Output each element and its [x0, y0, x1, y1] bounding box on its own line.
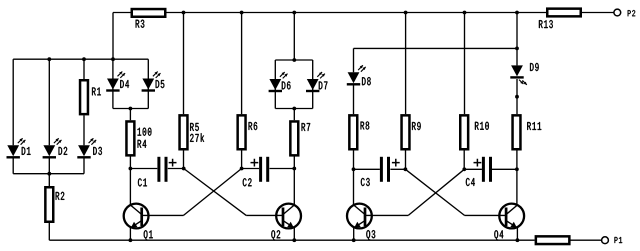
LED D9: [511, 65, 523, 76]
wire D2 cathode: [48, 159, 50, 174]
LED D2: [43, 145, 55, 156]
wire left section bottom rail: [13, 173, 84, 175]
capacitor C2: [259, 157, 262, 182]
label R6: [249, 122, 258, 130]
wire box to R4: [129, 109, 131, 121]
wire R9 bottom lead: [405, 151, 407, 170]
wire C1 right lead: [168, 168, 184, 170]
label Q2: [271, 230, 280, 240]
wire Q3 emitter: [353, 227, 355, 240]
node C2/Q2 collector junction: [292, 167, 296, 171]
wire R8 bottom lead: [353, 151, 355, 170]
wire D8 cathode to R8: [353, 86, 355, 115]
resistor R8: [349, 115, 357, 149]
resistor R13: [547, 9, 581, 17]
label D8: [362, 77, 371, 85]
label Q1: [144, 230, 153, 240]
resistor R5: [180, 115, 188, 149]
label C1: [138, 178, 147, 186]
wire Q1 emitter: [129, 227, 131, 240]
wire R7 bottom lead: [293, 156, 295, 168]
resistor R11: [513, 115, 521, 149]
wire R10 top lead: [464, 13, 466, 115]
wire C2 left lead: [242, 168, 259, 170]
resistor R9: [402, 115, 410, 149]
label C4: [466, 178, 475, 186]
node D6/D7 bottom junction: [292, 107, 296, 111]
wire Q4 collector: [516, 169, 518, 205]
wire D3 cathode: [83, 159, 85, 174]
wire C4 left lead: [464, 168, 482, 170]
wire Q3 collector: [353, 169, 355, 205]
wire C1 left lead: [130, 168, 157, 170]
wire bottom rail to P1: [570, 239, 601, 241]
node top rail at R9: [404, 11, 408, 15]
label D3: [93, 147, 102, 155]
label C3: [361, 178, 370, 186]
resistor R7: [290, 121, 298, 155]
node top rail at R6: [240, 11, 244, 15]
label D4: [120, 80, 129, 88]
wire D4/D5 box: [113, 59, 148, 108]
node junction left rail at R1: [82, 57, 86, 61]
node feed rail at D9 column: [515, 47, 519, 51]
wire R5 bottom lead: [183, 151, 185, 169]
label R5 value 27k: [190, 133, 204, 142]
LED D3: [78, 145, 90, 156]
node C4/Q4 collector junction: [515, 167, 519, 171]
node D9 cathode junction: [515, 95, 519, 99]
LED D7: [307, 79, 319, 90]
wire C3 right lead: [390, 168, 405, 170]
node Q1 collector junction: [129, 167, 133, 171]
LED D1: [7, 145, 19, 156]
resistor R2: [45, 187, 53, 222]
wire D8 anode: [353, 48, 355, 72]
polarity + of C1: [169, 159, 177, 167]
wire R5 top lead: [183, 13, 185, 115]
node junction D4/D5 bottom: [129, 107, 133, 111]
wire top-left drop to LED rail: [112, 13, 114, 60]
polarity + of C3: [392, 159, 400, 167]
wire D9 cathode: [516, 79, 518, 97]
label D7: [319, 82, 328, 90]
label R1: [92, 88, 101, 96]
node C2/R6 junction: [240, 167, 244, 171]
wire Q1 base to C2 node diagonal: [184, 169, 242, 216]
label Q4: [494, 230, 503, 240]
wire left section top rail: [13, 58, 113, 60]
wire Q2 emitter: [293, 227, 295, 240]
label D6: [282, 81, 291, 89]
node junction left rail at box: [111, 57, 115, 61]
wire D2 anode: [48, 59, 50, 145]
terminal P2: [614, 9, 621, 16]
label R8: [361, 121, 370, 129]
wire C4 right lead: [492, 168, 517, 170]
wire R6 top lead: [241, 13, 243, 115]
wire Q4 base lead: [465, 214, 507, 216]
wire Q3 base lead: [365, 214, 408, 216]
node C3/R9 junction: [404, 167, 408, 171]
node Q4 emitter on rail: [516, 238, 520, 242]
transistor Q3: [347, 204, 372, 229]
node top rail at R5: [182, 11, 186, 15]
wire Q2 collector: [293, 169, 295, 206]
transistor Q2: [276, 204, 301, 229]
wire C1 node to Q2 base diagonal: [184, 169, 247, 216]
node top rail at R7: [292, 11, 296, 15]
label R3: [136, 20, 145, 28]
node D6/D7 box top: [292, 58, 296, 62]
label R10: [475, 122, 489, 130]
label R4 value 100: [138, 128, 152, 136]
resistor R3: [132, 9, 166, 17]
wire R6 bottom lead: [241, 151, 243, 169]
label D1: [22, 147, 31, 155]
label R2: [56, 192, 65, 200]
LED D8: [348, 72, 360, 83]
terminal P1: [602, 237, 609, 244]
wire R2 top lead: [48, 174, 50, 186]
wire R9 top lead: [405, 13, 407, 115]
wire C2 right lead: [270, 168, 295, 170]
wire R1 top lead: [83, 59, 85, 79]
node top rail at R10: [463, 11, 467, 15]
resistor R6: [238, 115, 246, 149]
transistor Q4: [499, 204, 524, 229]
node Q1 emitter on rail: [129, 238, 133, 242]
label R9: [412, 122, 421, 130]
wire Q2 base lead: [246, 214, 283, 216]
wire D1 anode: [12, 59, 14, 145]
wire D9 column upper: [516, 13, 518, 49]
wire Q1 base lead: [142, 214, 184, 216]
wire box to R7: [293, 109, 295, 121]
polarity + of C2: [251, 159, 259, 167]
node C3/Q3 collector junction: [352, 167, 356, 171]
resistor R1: [80, 80, 88, 114]
wire rail to D6/D7 box: [293, 13, 295, 61]
node Q2 emitter on rail: [292, 238, 296, 242]
node C1/R5 junction: [182, 167, 186, 171]
wire D6/D7 box: [275, 60, 312, 109]
wire Q3 base to C4 node diagonal: [408, 169, 464, 215]
wire Q4 emitter: [516, 227, 518, 240]
wire R4 to C1 node: [129, 156, 131, 168]
capacitor C1: [157, 157, 160, 182]
node junction bottom-left rail at R2: [47, 172, 51, 176]
label R7: [302, 123, 311, 131]
label D9: [530, 63, 539, 71]
label R4: [138, 140, 147, 148]
node C4/R10 junction: [462, 167, 466, 171]
label D5: [156, 80, 165, 88]
wire top rail right segment: [582, 12, 614, 14]
wire R10 bottom lead: [463, 151, 465, 170]
node top rail at D9 column: [515, 11, 519, 15]
wire top rail left segment: [113, 12, 131, 14]
wire R9 node to Q4 base diagonal: [405, 169, 464, 215]
capacitor C4: [482, 157, 485, 182]
capacitor C3: [380, 157, 383, 182]
wire C3 left lead: [354, 168, 380, 170]
wire top rail middle segment: [167, 12, 547, 14]
resistor R12: [536, 236, 570, 244]
LED D6: [269, 79, 281, 90]
LED D4: [107, 79, 119, 90]
node Q3 emitter on rail: [352, 238, 356, 242]
wire D9 node to R11: [516, 97, 518, 114]
label D2: [59, 147, 68, 155]
wire D9 anode: [516, 48, 518, 65]
wire second feed rail: [354, 47, 518, 49]
LED D5: [142, 79, 154, 90]
resistor R10: [460, 115, 468, 149]
label R5: [190, 123, 199, 131]
label R13: [539, 20, 553, 28]
transistor Q1: [124, 204, 149, 229]
label R11: [527, 122, 541, 130]
wire D1 cathode: [12, 159, 14, 174]
wire Q1 collector: [129, 169, 131, 206]
wire R2 to ground rail: [48, 223, 50, 240]
polarity + of C4: [474, 159, 482, 167]
wire R1 to D3: [83, 115, 85, 145]
wire R11 bottom lead: [516, 151, 518, 170]
label C2: [243, 178, 252, 186]
resistor R4: [126, 121, 134, 155]
wire bottom rail: [49, 239, 534, 241]
node junction left rail at D2: [47, 57, 51, 61]
label Q3: [366, 230, 375, 240]
